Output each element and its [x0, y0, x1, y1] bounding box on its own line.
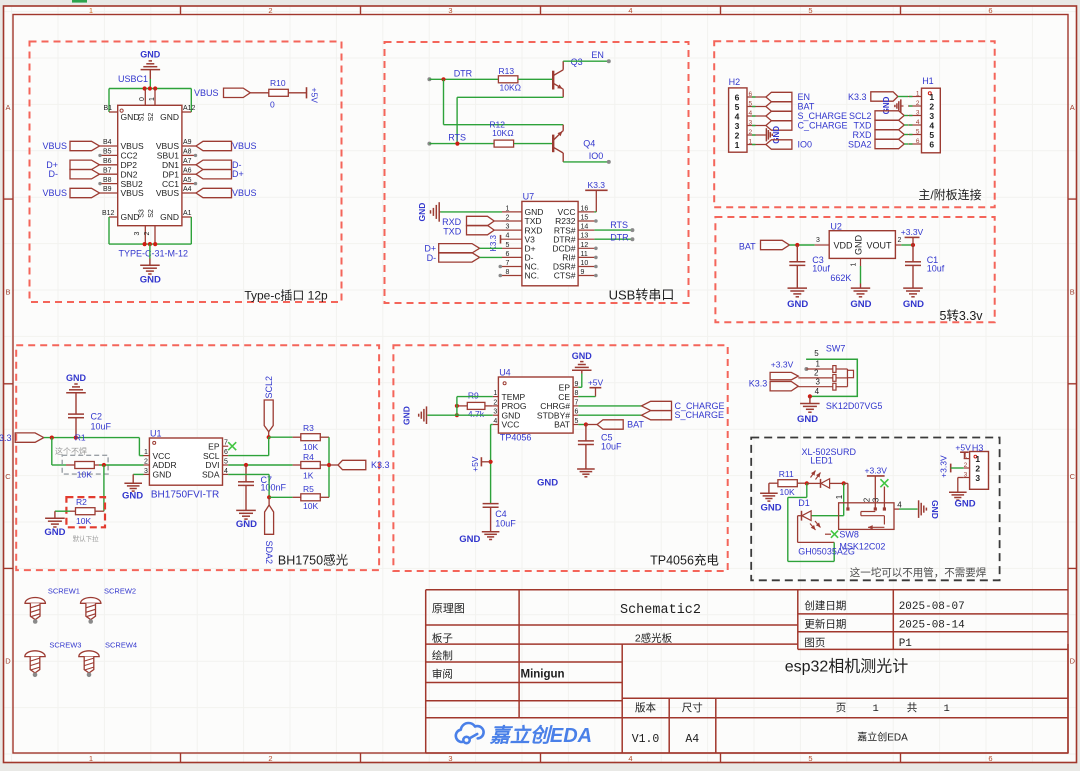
wire: [288, 92, 306, 94]
svg-text:GND: GND: [121, 112, 140, 122]
svg-text:10K: 10K: [77, 469, 92, 479]
svg-text:5: 5: [224, 459, 228, 466]
pin 2 TXD of U7: [502, 220, 522, 222]
svg-text:4: 4: [929, 121, 934, 131]
svg-text:K3.3: K3.3: [0, 433, 12, 443]
ground GND at H3 pin3: [958, 477, 964, 479]
svg-text:3: 3: [735, 121, 740, 131]
junction DTR: [441, 77, 445, 81]
pin 16 VCC of U7: [578, 211, 594, 213]
pin 1 GND of U7: [502, 211, 522, 213]
ground GND at SW8 pin4: [918, 500, 920, 518]
svg-text:B: B: [1070, 288, 1075, 297]
svg-text:2: 2: [814, 369, 819, 378]
switch SW8 slider bracket: [861, 511, 875, 513]
pin 6 SCL of U1: [223, 455, 229, 457]
svg-text:5: 5: [735, 102, 740, 112]
svg-text:4: 4: [628, 6, 632, 15]
svg-text:IO0: IO0: [798, 140, 813, 150]
svg-text:0: 0: [270, 100, 275, 110]
svg-text:K3.3: K3.3: [848, 92, 867, 102]
svg-text:3: 3: [816, 237, 820, 244]
svg-text:GND: GND: [850, 299, 871, 310]
svg-text:1: 1: [144, 449, 148, 456]
pin 11 RI# of U7: [578, 256, 594, 258]
no-connect X at SW8 pin3: [880, 479, 888, 487]
capacitor C7: [245, 465, 247, 482]
svg-text:R10: R10: [270, 78, 286, 88]
junction: [489, 460, 493, 464]
svg-text:9: 9: [581, 269, 585, 276]
svg-text:2025-08-14: 2025-08-14: [899, 620, 965, 632]
title block grid: [426, 590, 1068, 753]
wire loop: [843, 483, 845, 515]
svg-text:U4: U4: [499, 368, 511, 378]
pin A5 CC1: [182, 183, 196, 185]
svg-text:A6: A6: [183, 167, 192, 174]
svg-text:GND: GND: [882, 96, 891, 114]
junction: [74, 436, 78, 440]
svg-text:图页: 图页: [804, 637, 825, 649]
ground GND at H1 pin2: [901, 105, 904, 107]
svg-text:R9: R9: [468, 391, 479, 401]
junction: [50, 436, 54, 440]
wire bottom green bus of USBC1: [108, 217, 110, 244]
svg-text:B7: B7: [103, 167, 112, 174]
svg-text:10K: 10K: [780, 487, 795, 497]
node EN endpoint: [607, 59, 611, 63]
junction RTS: [455, 142, 459, 146]
net flag K3.3 right: [329, 464, 338, 466]
pin A1: [182, 216, 191, 218]
junction: [805, 481, 809, 485]
svg-text:GND: GND: [153, 470, 172, 480]
svg-text:GND: GND: [954, 498, 975, 509]
svg-text:S1: S1: [139, 113, 146, 122]
svg-text:创建日期: 创建日期: [804, 599, 846, 612]
power flag +5V at R10: [306, 87, 308, 98]
svg-text:DTR: DTR: [454, 68, 473, 78]
net flag BAT: [586, 424, 597, 426]
wire to R5: [269, 496, 293, 498]
capacitor C2: [68, 413, 84, 415]
pin 2 of H1: [908, 105, 922, 107]
pin A6 DP1: [182, 173, 196, 175]
svg-text:U1: U1: [150, 428, 162, 438]
svg-text:板子: 板子: [432, 632, 453, 645]
svg-text:4: 4: [897, 501, 902, 510]
pin 5 of H1: [908, 134, 922, 136]
svg-text:GND: GND: [140, 50, 161, 60]
svg-text:Minigun: Minigun: [521, 669, 565, 681]
svg-text:A5: A5: [183, 177, 192, 184]
svg-text:CTS#: CTS#: [554, 271, 576, 281]
wire: [797, 482, 807, 484]
node IO0 endpoint: [607, 160, 611, 164]
junction: [327, 463, 331, 467]
svg-text:SW8: SW8: [839, 529, 859, 539]
svg-text:VOUT: VOUT: [866, 241, 892, 251]
pin 2 of SW8: [874, 476, 876, 509]
resistor R1: [66, 464, 75, 466]
svg-text:R2: R2: [76, 497, 87, 507]
svg-text:4: 4: [224, 468, 228, 475]
svg-text:1: 1: [506, 205, 510, 212]
svg-text:3: 3: [493, 409, 497, 416]
svg-text:P1: P1: [899, 638, 913, 650]
svg-text:1: 1: [735, 140, 740, 150]
pin B9 VBUS: [100, 192, 118, 194]
svg-text:10uf: 10uf: [812, 264, 830, 274]
svg-text:SDA2: SDA2: [848, 139, 872, 149]
svg-text:6: 6: [574, 409, 578, 416]
svg-text:Q4: Q4: [583, 138, 595, 148]
svg-text:A: A: [1070, 103, 1075, 112]
power flag +5V left: [481, 461, 490, 463]
net flag D- left B7: [70, 170, 100, 179]
svg-text:B1: B1: [104, 105, 113, 112]
svg-text:USB转串口: USB转串口: [609, 288, 675, 303]
wire SCL node: [268, 437, 270, 455]
svg-text:4.7k: 4.7k: [468, 409, 485, 419]
pin 7 CHRG# of U4: [573, 405, 578, 407]
pin B6 DP2: [100, 164, 118, 166]
capacitor C3: [796, 245, 798, 262]
pin 1 of U2: [860, 258, 862, 266]
svg-text:K3.3: K3.3: [749, 379, 768, 389]
svg-text:GND: GND: [772, 126, 781, 144]
do-not-fit red dashed box around R2: [66, 497, 105, 527]
svg-text:2: 2: [916, 100, 920, 107]
svg-text:VBUS: VBUS: [232, 141, 257, 151]
pin A4 VBUS: [182, 192, 196, 194]
svg-text:100nF: 100nF: [261, 483, 287, 493]
ground GND under R2: [54, 511, 56, 518]
pin A12: [182, 111, 191, 113]
capacitor C5: [585, 425, 587, 441]
svg-text:10KΩ: 10KΩ: [492, 128, 513, 138]
svg-text:RTS: RTS: [448, 133, 466, 143]
net flag SDA2 vertical: [268, 497, 270, 505]
junction: [244, 463, 248, 467]
svg-text:S2: S2: [148, 113, 155, 122]
svg-text:4: 4: [628, 754, 632, 763]
svg-text:VDD: VDD: [834, 241, 854, 251]
svg-text:GND: GND: [402, 406, 412, 425]
svg-text:4: 4: [493, 418, 497, 425]
svg-text:BAT: BAT: [739, 241, 756, 251]
svg-text:S2: S2: [148, 209, 155, 218]
svg-text:B12: B12: [102, 210, 115, 217]
net flag C_CHARGE at H2: [766, 121, 792, 130]
svg-text:1: 1: [851, 262, 858, 266]
svg-text:10: 10: [581, 260, 589, 267]
svg-text:A4: A4: [183, 186, 192, 193]
svg-text:0: 0: [139, 97, 146, 101]
svg-text:GND: GND: [160, 212, 179, 222]
node DTR endpoint: [427, 77, 431, 81]
svg-text:3: 3: [916, 109, 920, 116]
svg-text:GND: GND: [417, 203, 427, 222]
svg-text:5: 5: [574, 418, 578, 425]
svg-text:Q3: Q3: [571, 57, 583, 67]
svg-text:SDA2: SDA2: [264, 541, 274, 565]
svg-text:D1: D1: [798, 498, 810, 508]
svg-text:14: 14: [581, 224, 589, 231]
svg-text:K3.3: K3.3: [371, 460, 390, 470]
svg-text:C_CHARGE: C_CHARGE: [798, 121, 848, 131]
svg-text:DTR: DTR: [610, 233, 629, 243]
svg-text:3: 3: [448, 6, 452, 15]
pin 5 of H2: [747, 106, 766, 108]
svg-text:7: 7: [506, 260, 510, 267]
svg-text:+3.3V: +3.3V: [901, 227, 924, 237]
svg-text:这一坨可以不用管，不需要焊: 这一坨可以不用管，不需要焊: [850, 566, 987, 579]
svg-text:默认下拉: 默认下拉: [73, 534, 100, 543]
svg-text:10uF: 10uF: [601, 442, 622, 452]
svg-text:R5: R5: [303, 484, 314, 494]
pin 14 RTS# of U7: [578, 229, 594, 231]
wire: [518, 78, 553, 80]
svg-text:A4: A4: [685, 733, 699, 746]
svg-text:RTS: RTS: [610, 220, 628, 230]
svg-text:GND: GND: [459, 534, 480, 545]
svg-text:5: 5: [808, 6, 812, 15]
svg-text:1: 1: [149, 97, 156, 101]
svg-text:11: 11: [581, 251, 588, 258]
ground GND under C7: [236, 509, 256, 511]
svg-text:GND: GND: [122, 491, 143, 502]
svg-text:2: 2: [975, 463, 980, 473]
pin 15 R232 of U7: [578, 220, 594, 222]
wire EN: [563, 60, 609, 62]
pin 3 GND of U4: [493, 414, 499, 416]
wire: [55, 510, 70, 512]
svg-text:Type-c插口 12p: Type-c插口 12p: [244, 289, 328, 303]
svg-text:VBUS: VBUS: [42, 188, 67, 198]
wire DVI row: [228, 464, 292, 466]
pin A8 SBU1: [182, 154, 196, 156]
svg-text:1K: 1K: [303, 470, 314, 480]
SW8 slide arrow: [883, 516, 885, 525]
svg-text:4: 4: [749, 110, 753, 117]
svg-text:C4: C4: [495, 509, 507, 519]
svg-text:2: 2: [862, 497, 871, 502]
svg-text:S_CHARGE: S_CHARGE: [675, 410, 725, 420]
wire: [441, 211, 503, 213]
svg-text:3: 3: [975, 473, 980, 483]
svg-text:4: 4: [815, 387, 820, 396]
svg-text:VCC: VCC: [502, 420, 520, 430]
no-connect X at U1 EP: [228, 442, 236, 450]
node RTS endpoint: [427, 142, 431, 146]
junction: [808, 394, 812, 398]
resistor R5: [293, 496, 302, 498]
connector USBC1 body TYPE-C-31-M-12: [118, 105, 182, 225]
wire main K3.3 rail: [44, 437, 140, 439]
svg-text:+5V: +5V: [310, 88, 320, 104]
switch SW7 contacts: [833, 366, 836, 373]
capacitor C1: [912, 245, 914, 262]
svg-text:3: 3: [815, 377, 820, 386]
svg-text:GND: GND: [140, 275, 161, 286]
svg-text:GND: GND: [854, 235, 864, 256]
svg-text:这个不焊: 这个不焊: [55, 446, 87, 456]
svg-text:VBUS: VBUS: [156, 188, 179, 198]
capacitor C4: [483, 503, 499, 505]
pin 6 D- of U7: [502, 256, 522, 258]
svg-text:6: 6: [916, 138, 920, 145]
diode LED1: [807, 482, 821, 484]
section box BH1750感光: [16, 345, 379, 570]
pin 9 CTS# of U7: [578, 275, 594, 277]
wire STDBY#: [578, 414, 641, 416]
pin 5 DVI of U1: [223, 464, 229, 466]
do-not-fit gray dashed box around R1: [62, 455, 108, 474]
svg-text:EN: EN: [798, 92, 811, 102]
pin 4 of H1: [908, 124, 922, 126]
svg-text:A7: A7: [183, 158, 192, 165]
wire RTS out: [594, 229, 631, 231]
svg-text:绘制: 绘制: [432, 649, 453, 662]
svg-text:TYPE-C-31-M-12: TYPE-C-31-M-12: [119, 248, 189, 258]
svg-text:1: 1: [815, 360, 820, 369]
pin 7 NC. of U7: [502, 266, 522, 268]
wire down to R1: [51, 438, 53, 465]
net flag IO0 at H2: [766, 140, 792, 149]
pin B8 SBU2: [100, 183, 118, 185]
junction: [911, 243, 915, 247]
net flag VBUS right A4: [196, 188, 232, 197]
svg-text:1: 1: [493, 390, 497, 397]
svg-text:5: 5: [808, 754, 812, 763]
wire down to R2: [103, 465, 105, 511]
wire D1 anode loop: [798, 515, 802, 517]
svg-text:6: 6: [749, 91, 753, 98]
net flag EN at H2: [766, 92, 792, 101]
pin 2 of H2: [747, 134, 766, 136]
svg-text:D-: D-: [427, 253, 437, 263]
junction: [267, 495, 271, 499]
svg-text:B9: B9: [103, 186, 112, 193]
ground GND under U2: [851, 287, 870, 289]
pin 3 RXD of U7: [502, 229, 522, 231]
svg-text:B4: B4: [103, 139, 112, 146]
svg-text:10KΩ: 10KΩ: [500, 83, 521, 93]
svg-text:TP4056: TP4056: [500, 433, 532, 443]
pin 1 TEMP of U4: [493, 396, 499, 398]
svg-text:BAT: BAT: [627, 420, 644, 430]
svg-text:SCL2: SCL2: [264, 376, 274, 399]
svg-text:6: 6: [988, 754, 992, 763]
svg-text:2025-08-07: 2025-08-07: [899, 601, 965, 613]
pin 4 V3 of U7: [502, 238, 522, 240]
pin 4 SDA of U1: [223, 473, 229, 475]
pin 6 STDBY# of U4: [573, 414, 578, 416]
svg-text:1: 1: [835, 494, 844, 499]
switch SW7 green outline: [806, 359, 857, 396]
svg-text:A: A: [5, 103, 10, 112]
svg-text:NC.: NC.: [525, 271, 540, 281]
pin 1 of SW7: [804, 367, 808, 371]
svg-text:GND: GND: [537, 477, 558, 488]
net flag C_CHARGE: [642, 401, 672, 410]
svg-text:2: 2: [964, 462, 968, 469]
wire right bus: [328, 437, 330, 497]
wire node TEMP PROG GND: [456, 397, 458, 416]
svg-text:VBUS: VBUS: [194, 88, 219, 98]
svg-text:2: 2: [506, 215, 510, 222]
svg-text:V1.0: V1.0: [632, 733, 660, 746]
svg-text:2: 2: [144, 231, 151, 235]
svg-text:3: 3: [872, 497, 881, 502]
svg-text:4: 4: [506, 233, 510, 240]
pin 13 DTR# of U7: [578, 238, 594, 240]
svg-text:13: 13: [581, 233, 589, 240]
svg-text:1: 1: [749, 138, 753, 145]
wire VCC down: [491, 424, 493, 426]
svg-text:D+: D+: [232, 169, 244, 179]
svg-text:B8: B8: [103, 177, 112, 184]
svg-text:10K: 10K: [303, 501, 318, 511]
wire: [901, 244, 913, 246]
svg-text:S_CHARGE: S_CHARGE: [798, 111, 848, 121]
svg-text:SCL2: SCL2: [849, 111, 872, 121]
pin 6 of H2: [747, 96, 766, 98]
svg-text:S3: S3: [139, 209, 146, 218]
svg-text:LED1: LED1: [810, 455, 833, 465]
pin B12: [109, 216, 118, 218]
junction: [455, 413, 459, 417]
svg-text:5: 5: [506, 242, 510, 249]
wire DTR to Q4: [443, 79, 445, 124]
net flag BAT at H2: [766, 102, 792, 111]
svg-text:更新日期: 更新日期: [804, 618, 846, 631]
pin 10 DSR# of U7: [578, 266, 594, 268]
svg-text:VBUS: VBUS: [232, 188, 257, 198]
resistor R4: [293, 464, 302, 466]
net flag VBUS left B4: [70, 141, 100, 150]
junction: [102, 463, 106, 467]
svg-text:SCREW1: SCREW1: [48, 586, 80, 595]
ground GND under C1: [903, 287, 923, 289]
svg-text:R4: R4: [303, 452, 314, 462]
junction dots top: [143, 86, 147, 90]
wire IO0: [563, 161, 609, 163]
wire DTR out: [594, 238, 631, 240]
junction: [267, 435, 271, 439]
svg-text:版本: 版本: [635, 701, 656, 714]
net flag D+ right A6: [196, 170, 232, 179]
wire: [514, 143, 553, 145]
section box Type-c插口 12p: [30, 42, 342, 303]
svg-text:+5V: +5V: [955, 442, 971, 452]
pin 3 GND of U1: [144, 473, 150, 475]
ground GND bottom of USBC1: [149, 244, 151, 258]
pin 3 of H1: [908, 115, 922, 117]
svg-text:GND: GND: [797, 414, 818, 425]
svg-text:TP4056充电: TP4056充电: [650, 553, 719, 568]
resistor R12: [494, 140, 513, 147]
svg-text:1: 1: [944, 703, 950, 715]
svg-text:10K: 10K: [76, 516, 91, 526]
svg-text:1: 1: [89, 6, 93, 15]
svg-text:R13: R13: [499, 66, 515, 76]
pin 1 VCC of U1: [144, 455, 150, 457]
svg-text:1: 1: [872, 703, 878, 715]
svg-text:6: 6: [929, 140, 934, 150]
svg-text:3: 3: [964, 472, 968, 479]
